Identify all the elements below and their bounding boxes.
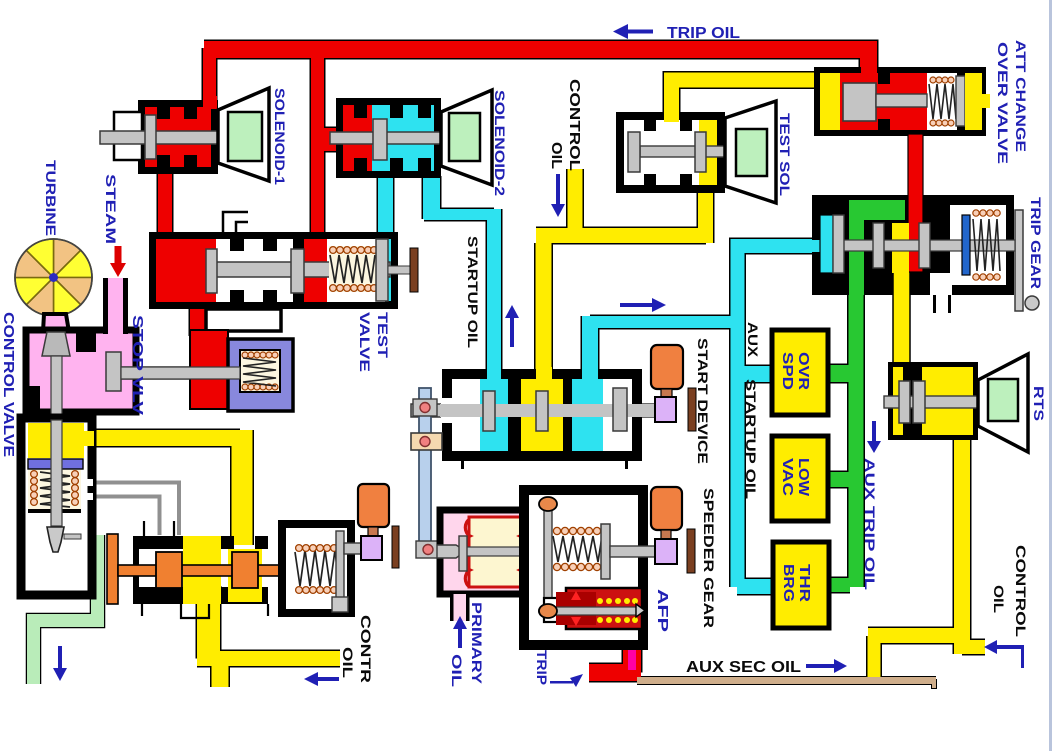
start device drains (461, 461, 464, 469)
control valve neck (43, 314, 69, 332)
rts coil box (988, 379, 1018, 421)
trip gear lever (1015, 210, 1023, 311)
arrow startup oil right (over cyan run) (620, 303, 653, 307)
solenoid-2 stem (330, 132, 449, 144)
pilot chamber violet plate (28, 459, 83, 469)
att spring chamber (927, 73, 957, 130)
wire: trip oil header outline (204, 50, 869, 71)
svg-text:TEST: TEST (375, 312, 391, 359)
spool valve top frame segments (139, 536, 183, 549)
lower-left pilot chamber frame (21, 418, 92, 595)
test sol coil box (736, 129, 767, 176)
svg-text:PRIMARY: PRIMARY (469, 602, 485, 685)
test valve right stem + handle (388, 266, 411, 274)
svg-text:AUX: AUX (745, 322, 761, 358)
pilot poppet (down arrow) (47, 527, 64, 552)
test valve bottom drain chamber (206, 309, 281, 331)
rts horn (978, 354, 1028, 452)
test valve stem (208, 262, 390, 277)
start device solenoid actuator (651, 345, 683, 389)
wire: aux sec oil tan line (637, 677, 936, 684)
svg-text:STEAM: STEAM (103, 174, 119, 244)
primary oil drain tube (453, 594, 467, 621)
test valve stem plates (206, 249, 217, 293)
steam pipe (108, 278, 123, 338)
wire: cyan startup oil net (386, 176, 814, 587)
svg-text:VAC: VAC (779, 458, 795, 497)
arrow control oil top down (556, 174, 560, 205)
trip gear green internal (849, 200, 905, 220)
turbine wheel (15, 239, 92, 316)
pilot chamber yellow outlet port (82, 431, 94, 446)
spool valve drain marks (142, 604, 268, 618)
trip gear spring (962, 215, 970, 275)
arrow trip oil left (622, 30, 653, 34)
svg-text:OVER VALVE: OVER VALVE (995, 42, 1011, 164)
svg-text:SPD: SPD (779, 352, 795, 390)
svg-text:TRIP GEAR: TRIP GEAR (1028, 197, 1044, 289)
wire: gray pilot signal lines (83, 483, 179, 536)
rts body (888, 362, 978, 440)
att red inlet port (861, 59, 877, 75)
svg-text:AUX SEC OIL: AUX SEC OIL (686, 659, 801, 676)
red pipe from att valve into trip gear (908, 134, 923, 272)
svg-text:LOW: LOW (795, 458, 811, 496)
wire: afp trip pipe outline (622, 626, 643, 673)
THR BRG box (773, 542, 829, 628)
red block (190, 330, 228, 409)
trip gear drains (933, 295, 936, 313)
solenoid-1 coil box (228, 112, 262, 161)
speeder stem (610, 546, 656, 557)
speeder solenoid actuator (651, 487, 682, 530)
arrow aux trip down (872, 421, 876, 442)
svg-text:AUX TRIP OIL: AUX TRIP OIL (862, 458, 878, 591)
svg-text:STARTUP OIL: STARTUP OIL (465, 236, 481, 349)
start device body (442, 369, 642, 461)
control valve body (26, 330, 136, 412)
wire: aux sec oil tan outline (637, 676, 936, 685)
control valve black notch (76, 330, 96, 352)
arrow startup oil up (left line) (510, 318, 514, 347)
att right yellow block (965, 73, 982, 130)
svg-text:SPEEDER GEAR: SPEEDER GEAR (701, 488, 717, 628)
att piston (843, 83, 876, 121)
solenoid-1 stem plate (145, 115, 156, 159)
solenoid-1 horn (218, 88, 269, 181)
start device pistons (483, 391, 495, 431)
arrow trip pointer (550, 681, 573, 684)
spool spring end plate (336, 531, 344, 606)
linkage middle pivot (411, 433, 442, 450)
svg-text:CONTROL: CONTROL (1013, 545, 1029, 638)
trip gear cyan piston (812, 240, 822, 252)
svg-text:OIL: OIL (991, 585, 1007, 614)
pilot chamber yellow cap (28, 423, 84, 458)
test sol body (616, 112, 725, 193)
test sol horn (725, 101, 776, 203)
test valve spring (329, 246, 377, 292)
test sol interior yellow (699, 120, 717, 185)
svg-text:VALVE: VALVE (357, 312, 373, 372)
solenoid-2 valve body (336, 98, 441, 178)
speeder spring plate (601, 524, 610, 579)
start device stem (left of body) (411, 404, 654, 417)
svg-text:OIL: OIL (340, 647, 356, 679)
svg-text:TEST SOL: TEST SOL (777, 113, 793, 197)
svg-text:STARTUP OIL: STARTUP OIL (743, 379, 759, 500)
svg-text:OVR: OVR (795, 352, 811, 391)
OVR SPD box (772, 330, 828, 415)
svg-text:BRG: BRG (780, 564, 796, 602)
bellows chamber (440, 510, 526, 594)
spool spring box (282, 524, 351, 613)
solenoid-1 stem (100, 131, 228, 144)
svg-text:AFP: AFP (654, 589, 671, 632)
speeder spring (553, 527, 600, 570)
wire: red trip oil net (165, 48, 869, 336)
bellows pointer rod (437, 545, 466, 558)
control valve poppet (42, 332, 70, 356)
green vertical through trip gear (849, 200, 864, 295)
wire: control oil yellow outlines (566, 169, 584, 237)
arrow drain down (pale green end) (58, 646, 62, 669)
purple spring box (228, 339, 293, 411)
spool actuator stem (344, 543, 364, 554)
yellow inside trip gear (892, 223, 909, 273)
pilot chamber spring (vertical, dot columns) (28, 470, 81, 513)
svg-text:STOP VLV: STOP VLV (129, 315, 146, 415)
trip gear body (812, 195, 1014, 295)
wire: yellow control oil net (88, 80, 985, 687)
arrow aux sec right (806, 664, 835, 668)
bellows (469, 517, 521, 587)
linkage bar (419, 388, 431, 552)
arrow primary oil up (458, 629, 462, 648)
right page border line (1049, 0, 1052, 751)
LOW VAC box (772, 436, 828, 521)
svg-text:CONTROL: CONTROL (566, 79, 583, 171)
speeder link bar (544, 499, 552, 612)
wire: drain pale green outline (34, 535, 98, 684)
wire: aux trip green stubs (828, 205, 856, 587)
speeder gear box (524, 490, 643, 645)
solenoid-2 horn (441, 90, 492, 185)
solenoid-2 stem plate (373, 119, 387, 160)
pilot chamber stem (51, 420, 62, 526)
start device ports reopened (487, 367, 501, 381)
wire: startup oil cyan outlines (377, 176, 395, 240)
svg-text:ATT CHANGE: ATT CHANGE (1013, 40, 1029, 152)
wire: aux trip green outlines (847, 205, 865, 587)
att valve body (814, 67, 986, 136)
test sol stem (640, 146, 737, 157)
pilot chamber wall gaps for signal lines (84, 479, 93, 486)
att spring plate (956, 76, 965, 126)
arrow contr oil left (317, 677, 339, 681)
linkage bottom pin (416, 541, 439, 558)
svg-text:SOLENOID-2: SOLENOID-2 (492, 90, 507, 196)
arrow control oil bottom-right left (996, 645, 1024, 649)
solenoid-1 red inlet port (203, 96, 217, 109)
start device stem frame crossings (441, 398, 452, 423)
stop valve stem overlay (runs over red block into purple box) (121, 367, 240, 379)
spool valve bottom frame segments (139, 587, 189, 604)
svg-text:TURBINE: TURBINE (43, 160, 59, 236)
linkage top pin (413, 399, 437, 416)
test sol notches (644, 120, 656, 131)
spool orange slide (107, 534, 118, 604)
rts stem (884, 396, 988, 408)
speeder link bottom pin (over AFP) (539, 604, 557, 618)
test valve body (149, 232, 398, 309)
stop valve stem plate (106, 352, 121, 391)
AFP device (566, 588, 642, 629)
svg-text:THR: THR (796, 564, 812, 603)
rts yellow pipe up (behind body, drawn here) (893, 250, 910, 366)
svg-text:SOLENOID-1: SOLENOID-1 (272, 88, 287, 186)
svg-text:RTS: RTS (1031, 386, 1047, 421)
wire: afp trip pipe red with magenta core (623, 626, 641, 673)
svg-text:TRIP: TRIP (534, 650, 550, 685)
wire: pale green drain (34, 535, 98, 684)
start device stem through body (452, 404, 632, 417)
svg-text:CONTROL VALVE: CONTROL VALVE (0, 312, 17, 457)
test valve vent hook (223, 212, 248, 233)
stop valve stem (119, 367, 231, 379)
steam arrow (110, 246, 126, 277)
solenoid-2 coil box (449, 113, 480, 161)
spool valve vent stubs above (144, 521, 174, 536)
svg-text:OIL: OIL (449, 654, 465, 688)
svg-text:TRIP OIL: TRIP OIL (667, 25, 740, 42)
spool solenoid actuator (358, 484, 389, 527)
bellows disc (459, 536, 467, 571)
svg-text:START DEVICE: START DEVICE (695, 338, 711, 464)
svg-text:CONTR: CONTR (358, 615, 374, 683)
trip gear gray plates and stem (843, 240, 1015, 251)
test valve interior cyan column (379, 239, 391, 301)
svg-text:OIL: OIL (548, 142, 565, 169)
spool valve chambers (139, 549, 183, 587)
solenoid-1 left white chamber (114, 112, 142, 160)
spool valve left thin wall (133, 536, 139, 604)
solenoid-1 valve body (138, 100, 218, 174)
